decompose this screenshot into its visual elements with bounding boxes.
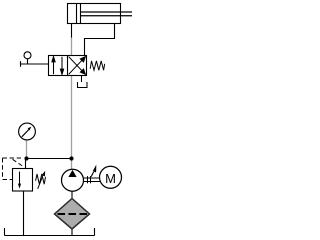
- pump P1: [62, 169, 84, 191]
- wire A gray segment (to valve top): [71, 37, 73, 56]
- valve V1 lever: [21, 52, 49, 67]
- relief valve RV1 body: [13, 169, 33, 192]
- cylinder C1 piston: [77, 4, 81, 24]
- relief valve RV1 flow arrow: [19, 172, 21, 185]
- pressure gauge G1: [19, 123, 36, 140]
- node J2 (gauge junction): [24, 156, 28, 160]
- svg-text:M: M: [105, 171, 116, 186]
- tank T1: [5, 228, 95, 236]
- relief valve RV1 outlet wire: [23, 191, 25, 236]
- pump P1 suction wire: [71, 191, 73, 199]
- relief valve RV1 adjustment arrow: [38, 177, 43, 189]
- cylinder C1 body: [68, 4, 121, 24]
- filter F1 outlet stem: [71, 229, 73, 236]
- valve V1 left position arrows: [52, 57, 64, 75]
- coupling shaft: [84, 176, 101, 183]
- wire P (valve to pump, gray): [71, 76, 73, 170]
- wire A (cylinder left port down, black stub): [71, 24, 73, 38]
- relief valve RV1 pilot line (dashed): [3, 158, 25, 180]
- wire B (cylinder right port to valve): [85, 24, 115, 56]
- valve V1 crossed arrows: [69, 57, 86, 75]
- cylinder C1 piston rod: [81, 12, 133, 16]
- rotation direction arrow: [91, 172, 93, 177]
- relief valve RV1 inlet wire: [25, 159, 27, 169]
- gauge stem wire (gray): [26, 140, 28, 159]
- node J1 (pump line junction): [27, 158, 72, 160]
- valve V1 return spring: [90, 61, 105, 70]
- filter F1: [55, 199, 90, 230]
- valve V1 body: [49, 56, 87, 76]
- valve V1 tank port T symbol: [78, 76, 88, 88]
- motor M1: [100, 166, 122, 188]
- relief valve RV1 spring: [36, 174, 46, 184]
